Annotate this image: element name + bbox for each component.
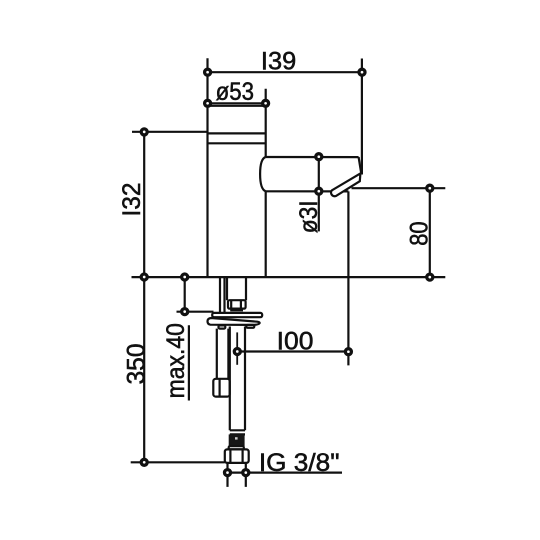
dimension dots	[141, 69, 433, 475]
dimension 80 line	[429, 188, 431, 277]
dot 139 right	[359, 69, 365, 75]
shank stud lines	[220, 277, 225, 313]
escutcheon top plate	[212, 313, 262, 317]
dimension 100 left centerline	[236, 332, 238, 364]
dimension o53 line	[208, 102, 266, 104]
spout bottom line	[266, 190, 349, 192]
dot 100 left	[234, 349, 240, 355]
inlet hex nut	[225, 449, 249, 463]
dimension 139 line	[208, 71, 363, 73]
dot 100 right	[345, 349, 351, 355]
svg-text:ø53: ø53	[216, 78, 254, 106]
dot 80 top	[427, 185, 433, 191]
dimension 100 line	[237, 350, 348, 352]
body cap groove lines	[207, 133, 265, 143]
riser pipe threaded dark section	[229, 434, 245, 446]
bottom long extension line (body bottom + 80 + 132/max40)	[132, 276, 446, 278]
riser pipe flange band	[229, 446, 244, 449]
dimension 100 right extension	[347, 191, 349, 365]
escutcheon right tab	[246, 325, 254, 328]
dimension o31 line	[318, 157, 320, 232]
dimension max40 vertical line	[184, 277, 186, 312]
svg-text:ø3I: ø3I	[295, 200, 323, 233]
escutcheon dish	[208, 318, 260, 325]
svg-text:I32: I32	[118, 183, 146, 217]
dimension 80 top extension	[352, 187, 446, 189]
max40 text underline	[188, 325, 190, 400]
spout right tip edge	[359, 157, 362, 173]
shank washer	[230, 308, 243, 311]
svg-text:I00: I00	[277, 327, 314, 355]
dimension max40 bottom extension	[177, 311, 214, 313]
dot 80 bottom	[427, 274, 433, 280]
dot inlet right	[243, 470, 249, 476]
dot max40 top	[182, 274, 188, 280]
svg-text:80: 80	[405, 221, 433, 245]
svg-text:350: 350	[123, 344, 151, 385]
inlet thread stubs	[228, 463, 246, 487]
escutcheon left tab	[219, 325, 226, 328]
dot o53 left	[205, 100, 211, 106]
riser pipe	[230, 327, 245, 431]
left mounting nut	[213, 379, 229, 397]
dimension 132 top extension	[132, 131, 207, 133]
dot inlet left	[225, 470, 231, 476]
supply shank lines	[227, 277, 246, 300]
dot o53 right	[263, 100, 269, 106]
faucet body outline	[207, 58, 265, 277]
dot o31 top	[316, 154, 322, 160]
dot 350 bottom	[141, 459, 147, 465]
dot 132 bottom	[141, 274, 147, 280]
spout left rounded cap	[260, 157, 266, 191]
left mounting tube	[217, 329, 229, 380]
dot 139 left	[205, 69, 211, 75]
dot 132 top	[141, 129, 147, 135]
svg-text:IG 3/8": IG 3/8"	[259, 449, 340, 477]
svg-text:I39: I39	[261, 48, 296, 76]
riser pipe joint lines	[230, 430, 245, 434]
label IG38 leader line	[228, 472, 343, 474]
dimension 350 bottom extension	[131, 461, 225, 463]
dimension 132+350 vertical line	[143, 132, 145, 462]
dot max40 bottom	[182, 309, 188, 315]
dimension 139 right extension	[361, 59, 363, 175]
shank hex nut	[228, 300, 246, 308]
spout top line	[266, 156, 359, 158]
dot o31 bottom	[316, 188, 322, 194]
aerator tip band	[331, 173, 360, 196]
svg-text:max.40: max.40	[162, 323, 190, 398]
